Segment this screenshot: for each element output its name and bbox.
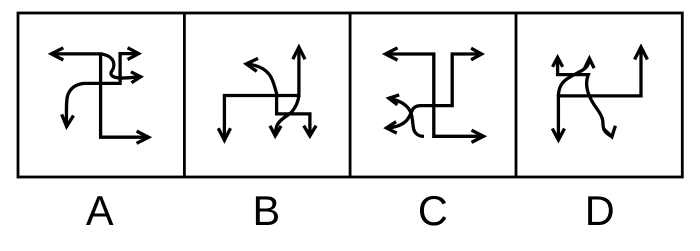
D: down-right arrowhead — [604, 126, 616, 137]
C: gamma wire with top-right arrow and curve to left arrow — [387, 54, 482, 128]
svg-text:B: B — [252, 187, 280, 234]
B: middle down arrowhead — [270, 126, 281, 136]
B: hook curve wire from junction to middle down arrow — [275, 96, 299, 136]
C: left arrowhead of lower curve — [387, 122, 397, 134]
svg-text:A: A — [86, 187, 114, 234]
A: bottom right arrowhead — [137, 131, 149, 143]
D: second up arrowhead — [585, 58, 594, 68]
B: right down arrowhead — [304, 126, 316, 136]
B: up arrowhead — [293, 47, 305, 59]
B: main Z wire: down arrow, right, up arrow — [224, 47, 299, 140]
D: gamma wire with small up arrow and wavy drop to down-right arrow — [558, 58, 612, 137]
A: left arrowhead — [51, 48, 63, 60]
A: mid right arrowhead — [131, 72, 141, 83]
C: main Z wire: left arrow, down, right arrow — [386, 54, 484, 136]
C: up-left arrowhead — [389, 95, 399, 105]
C: top left arrowhead — [386, 48, 398, 60]
C: bottom right arrowhead — [472, 130, 484, 142]
C: top right arrowhead — [471, 48, 482, 60]
C: curve wire from bottom line up to up-left arrow — [389, 98, 424, 136]
D: top right up arrowhead — [635, 47, 648, 60]
D: bottom left down arrowhead — [552, 129, 564, 141]
A: bulge curve wire from junction to mid right arrow — [101, 54, 141, 78]
A: top right arrowhead — [128, 48, 139, 60]
svg-text:C: C — [418, 187, 448, 234]
outer frame of four answer boxes — [18, 13, 682, 177]
B: upper left arrowhead — [246, 58, 258, 71]
A: gamma wire with top-right arrow and curved drop to down arrow — [66, 54, 138, 126]
A: lower left down arrowhead — [62, 114, 74, 126]
D: main Z wire: up arrow, left, down arrow — [558, 47, 641, 140]
svg-text:D: D — [585, 187, 615, 234]
divider A|B — [183, 13, 186, 177]
B: left down arrowhead — [218, 128, 230, 140]
A: main Z wire: left arrow, down, right arrow — [51, 54, 148, 137]
B: S-curve wire from up-left arrow through elbow to down arrow — [246, 64, 310, 136]
divider B|C — [349, 13, 352, 177]
D: bulge curve wire from corner junction to second up arrow — [558, 59, 589, 97]
D: small left up arrowhead — [553, 57, 563, 67]
divider C|D — [515, 13, 518, 177]
